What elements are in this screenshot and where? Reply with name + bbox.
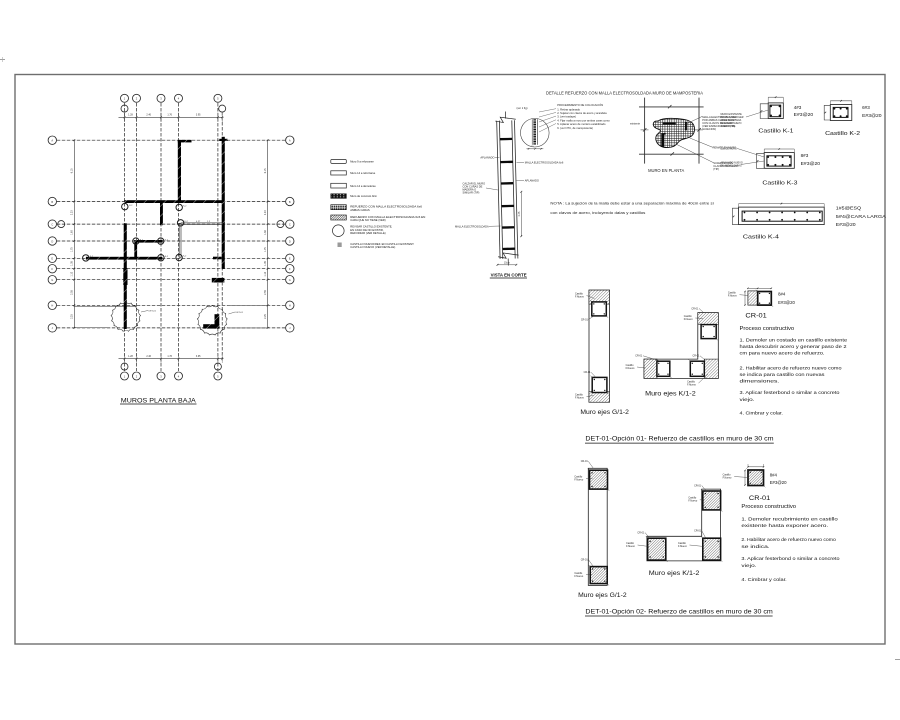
wall axis 3 rows B-C <box>160 202 163 226</box>
svg-text:REFORZAR (VER DETALLE): REFORZAR (VER DETALLE) <box>350 231 385 235</box>
castillo margin note 1 <box>721 110 769 128</box>
svg-text:se indica para castillo con nu: se indica para castillo con nuevas <box>740 372 826 378</box>
svg-text:4#3: 4#3 <box>794 105 802 110</box>
legend swatch 4 muro black <box>331 194 378 199</box>
svg-text:con clavos de acero, incluyend: con clavos de acero, incluyendo dalas y … <box>550 210 645 215</box>
svg-text:F.Nuevo: F.Nuevo <box>678 545 687 548</box>
svg-text:APLANADO: APLANADO <box>480 155 494 159</box>
plan vertical axis 2 <box>136 103 138 371</box>
plan horizontal axis C <box>57 223 285 225</box>
svg-text:C: C <box>51 222 53 226</box>
axis bubble bottom 5p <box>214 363 221 370</box>
svg-text:1.75: 1.75 <box>71 247 74 252</box>
axis bubble bottom 3 <box>157 372 165 380</box>
svg-text:F.Nuevo: F.Nuevo <box>626 367 635 370</box>
svg-text:E: E <box>51 257 53 261</box>
svg-text:E: E <box>289 257 291 261</box>
svg-text:Muro ejes G/1-2: Muro ejes G/1-2 <box>578 593 627 599</box>
muro en planta grid lines <box>639 98 704 164</box>
axis bubble left Cp <box>58 221 65 228</box>
castillo tag 6 <box>90 256 94 258</box>
svg-text:2.46: 2.46 <box>146 114 151 117</box>
det2 CR-01 caption <box>749 496 771 502</box>
svg-text:B: B <box>51 200 53 204</box>
svg-text:SUJECION): SUJECION) <box>702 127 716 131</box>
svg-text:F.Nuevo: F.Nuevo <box>574 575 583 578</box>
plan horizontal axis D <box>57 240 285 242</box>
svg-text:1. Demoler recubrimiento en ca: 1. Demoler recubrimiento en castillo <box>741 517 838 523</box>
detail sheet title <box>546 91 703 96</box>
svg-text:4. Cimbrar y colar.: 4. Cimbrar y colar. <box>740 411 783 417</box>
solid axis segment J right <box>228 327 268 329</box>
castillo tag 7 <box>165 256 169 258</box>
svg-text:CR-01: CR-01 <box>749 496 771 502</box>
castillo marker 1 <box>122 203 128 209</box>
svg-text:Muro 9 a reforzarse: Muro 9 a reforzarse <box>350 160 374 164</box>
svg-text:2. Habilitar acero de refuerzo: 2. Habilitar acero de refuerzo nuevo com… <box>741 537 836 543</box>
det1 muro ejes K/1-2 <box>644 313 718 379</box>
svg-text:EJE DE MURO: EJE DE MURO <box>721 147 737 150</box>
legend swatch 3 muro outline <box>331 183 376 188</box>
svg-text:CR-01: CR-01 <box>584 371 592 374</box>
svg-text:H: H <box>289 304 291 308</box>
svg-text:F.Nuevo: F.Nuevo <box>687 383 696 386</box>
svg-text:DET-01: DET-01 <box>236 312 244 314</box>
det2 muro K labels <box>626 484 706 547</box>
axis bubble left C <box>48 220 56 228</box>
svg-text:CR-01: CR-01 <box>693 355 701 358</box>
muro en planta mesh blob <box>653 118 694 147</box>
ladder label aplanado left <box>480 155 499 159</box>
castillo K-1 labels <box>794 105 814 117</box>
svg-text:F.Nuevo: F.Nuevo <box>575 295 584 298</box>
svg-text:E#3@20: E#3@20 <box>801 161 821 166</box>
svg-text:F.Nuevo: F.Nuevo <box>626 545 635 548</box>
legend swatch 5 mesh both faces <box>331 205 423 212</box>
det1 CR-01 detail <box>728 288 773 307</box>
axis bubble top 3 <box>157 94 165 102</box>
muro en planta label right 1 <box>702 115 741 131</box>
svg-text:G: G <box>289 278 291 282</box>
svg-text:2. Habilitar acero de refuerzo: 2. Habilitar acero de refuerzo nuevo com… <box>740 365 842 371</box>
det1 muro K labels <box>626 307 708 386</box>
castillo margin note 2 <box>721 147 765 157</box>
svg-text:1.28: 1.28 <box>128 114 133 117</box>
plan horizontal axis B <box>57 201 285 203</box>
svg-text:Muro ejes G/1-2: Muro ejes G/1-2 <box>580 410 629 416</box>
svg-text:NOTA : La sujeción de la malla: NOTA : La sujeción de la malla debe esta… <box>550 200 714 205</box>
castillo marker 8 <box>176 254 182 260</box>
svg-text:B: B <box>289 200 291 204</box>
svg-text:CARA QUE NO TIENE (VER): CARA QUE NO TIENE (VER) <box>350 218 385 222</box>
axis bubble bottom 2 <box>133 372 141 380</box>
wall row D axes 2-3 <box>134 240 162 243</box>
wall L in cloud 2 <box>203 314 219 328</box>
svg-text:E#3@20: E#3@20 <box>794 112 814 117</box>
svg-text:1. Retirar aplanado: 1. Retirar aplanado <box>557 107 580 111</box>
svg-text:2.25: 2.25 <box>71 314 74 319</box>
left dimension line <box>71 139 76 328</box>
svg-text:MALLA ELECTROSOLDADA 6x6: MALLA ELECTROSOLDADA 6x6 <box>525 161 564 165</box>
plan vertical axis 5 <box>217 103 219 371</box>
svg-text:2.20: 2.20 <box>264 210 267 215</box>
sheet corner tick bottom-right <box>895 659 900 661</box>
det1 proceso steps <box>740 337 848 416</box>
svg-text:1.60: 1.60 <box>264 230 267 235</box>
svg-text:8#3: 8#3 <box>801 153 809 158</box>
ladder label malla left <box>455 224 501 228</box>
sheet border frame <box>15 75 885 645</box>
det1 proceso title <box>740 326 795 332</box>
axis bubble right B <box>286 197 294 205</box>
wall axis 2 rows D-E <box>134 241 137 259</box>
svg-text:MALLA ELECTROSOLDADA: MALLA ELECTROSOLDADA <box>455 224 489 228</box>
plan horizontal axis E <box>57 257 285 259</box>
svg-text:2. Sujetar con clavos de acero: 2. Sujetar con clavos de acero y arandel… <box>557 111 607 115</box>
castillo K-2 labels <box>862 105 882 118</box>
svg-text:APLANADO: APLANADO <box>525 178 539 182</box>
plan horizontal axis A <box>57 139 285 141</box>
axis bubble right H <box>286 301 294 309</box>
svg-text:Proceso constructivo: Proceso constructivo <box>740 326 795 332</box>
muro en planta label left <box>630 122 641 125</box>
det1 muro G labels <box>575 292 596 399</box>
plan horizontal axis J <box>57 327 285 329</box>
axis bubble left D <box>48 237 56 245</box>
ladder label calzar block <box>463 181 499 194</box>
plan vertical axis 5p <box>221 112 223 362</box>
svg-text:2.55: 2.55 <box>71 290 74 295</box>
revision cloud 1 <box>111 302 157 331</box>
solid axis segment H right <box>228 304 268 306</box>
svg-text:3. (ver traslape): 3. (ver traslape) <box>557 115 576 119</box>
svg-text:hasta descubrir acero y genera: hasta descubrir acero y generar paso de … <box>740 344 847 350</box>
det2 title <box>585 609 773 616</box>
svg-text:ACERO (TIP).: ACERO (TIP). <box>721 125 736 128</box>
existing wall row C axes 4-5 <box>181 221 222 224</box>
svg-text:1#5@ESQ: 1#5@ESQ <box>836 205 862 210</box>
svg-text:4. Fijar malla a muro por amba: 4. Fijar malla a muro por ambas caras co… <box>557 118 610 122</box>
svg-text:(ver 1 fig): (ver 1 fig) <box>517 106 528 110</box>
svg-text:SIMILAR (TIP): SIMILAR (TIP) <box>463 190 480 194</box>
ladder right dimension <box>518 191 522 237</box>
muro en planta caption <box>648 168 684 173</box>
svg-text:existente: existente <box>630 122 641 125</box>
det1 CR-01 labels <box>778 291 795 304</box>
wall axis 5p rows A-F <box>219 137 227 269</box>
svg-text:CR-01: CR-01 <box>637 531 645 534</box>
svg-text:1.60: 1.60 <box>71 230 74 235</box>
svg-text:1.10: 1.10 <box>264 271 267 276</box>
nota text <box>550 200 714 214</box>
svg-text:C: C <box>289 222 291 226</box>
svg-text:D: D <box>51 239 53 243</box>
plan title MUROS PLANTA BAJA <box>120 397 197 404</box>
axis bubble top 5p <box>219 105 226 112</box>
det1 muro G caption <box>580 410 629 416</box>
svg-text:8#4: 8#4 <box>778 291 786 296</box>
svg-text:2.45: 2.45 <box>518 211 521 216</box>
svg-text:DET-01: DET-01 <box>149 311 157 313</box>
axis bubble left F <box>48 265 56 273</box>
svg-text:Muro ejes K/1-2: Muro ejes K/1-2 <box>645 392 696 398</box>
svg-text:6.15: 6.15 <box>264 168 267 173</box>
svg-text:A: A <box>51 139 53 143</box>
castillo marker 5 <box>158 238 164 244</box>
svg-text:EN CASO DE NO EXISTIR,: EN CASO DE NO EXISTIR, <box>350 228 384 232</box>
axis bubble top 1p <box>121 105 128 112</box>
castillo tag 1 <box>129 205 133 207</box>
wall axis 1 rows C-J <box>123 223 127 329</box>
legend symbol 7 circle <box>333 224 393 236</box>
svg-text:F.Nuevo: F.Nuevo <box>574 478 583 481</box>
existing wall axis 4 rows C-E <box>179 223 181 257</box>
castillo K-3 caption <box>762 181 797 187</box>
plan vertical axis 4 <box>178 103 180 371</box>
mesh detail bottom dim <box>527 146 544 150</box>
svg-text:Castillo K-3: Castillo K-3 <box>762 181 797 187</box>
axis bubble right C <box>286 220 294 228</box>
svg-text:Castillo K-2: Castillo K-2 <box>825 131 860 137</box>
det1 title <box>585 436 774 443</box>
det2 muro G caption <box>578 593 627 599</box>
axis bubble bottom 1 <box>121 372 129 380</box>
castillo marker 2 <box>176 204 182 210</box>
axis bubble right J <box>286 324 294 332</box>
svg-text:Muro de concreto 9cm: Muro de concreto 9cm <box>350 194 377 198</box>
wall row B axes 1-5 <box>124 200 223 203</box>
svg-text:Muro ejes K/1-2: Muro ejes K/1-2 <box>649 571 700 577</box>
svg-text:CASTILLO NUEVO (VER DETALLE): CASTILLO NUEVO (VER DETALLE) <box>350 245 395 249</box>
wall row E <box>86 257 162 260</box>
svg-text:CR-01: CR-01 <box>581 318 589 321</box>
bottom dimension line <box>119 354 224 363</box>
svg-text:5#4@CARA LARGA: 5#4@CARA LARGA <box>836 214 887 219</box>
svg-text:DETALLE REFUERZO CON MALLA ELE: DETALLE REFUERZO CON MALLA ELECTROSOLDAD… <box>546 91 703 96</box>
axis bubble left H <box>48 301 56 309</box>
axis bubble bottom 5 <box>214 372 222 380</box>
castillo marker 7 <box>158 255 164 261</box>
svg-text:Castillo K-1: Castillo K-1 <box>758 129 793 135</box>
svg-text:6. (ver NTC, de mampostería): 6. (ver NTC, de mampostería) <box>557 126 593 130</box>
svg-text:CR-01: CR-01 <box>694 530 702 533</box>
svg-text:cm para nuevo acero de refuerz: cm para nuevo acero de refuerzo. <box>740 351 825 357</box>
ladder label aplanado right <box>517 178 539 182</box>
castillo tag 2 <box>183 206 187 208</box>
mesh detail circle <box>521 118 550 147</box>
section title VISTA EN CORTE <box>490 273 527 278</box>
axis bubble left A <box>48 136 56 144</box>
muro en planta label right 2 <box>713 146 737 150</box>
mesh detail bar <box>532 119 537 145</box>
svg-text:2.20: 2.20 <box>71 210 74 215</box>
svg-text:AMBAS CARAS: AMBAS CARAS <box>350 208 370 212</box>
plan vertical axis 1 <box>124 103 126 371</box>
revision cloud 2 <box>197 305 243 335</box>
det2 muro K caption <box>649 571 700 577</box>
svg-text:EN AMBAS CARAS: EN AMBAS CARAS <box>721 164 743 167</box>
castillo K-3 labels <box>801 153 821 166</box>
svg-text:D: D <box>289 239 291 243</box>
svg-text:Muro 14 a reforzarse: Muro 14 a reforzarse <box>350 171 375 175</box>
solid axis segment H left <box>74 305 136 307</box>
ladder bottom dimension 15cm <box>497 261 518 265</box>
castillo tag 5 <box>165 239 169 241</box>
svg-text:CR-01: CR-01 <box>694 484 702 487</box>
castillo K-4 labels <box>836 205 887 227</box>
det2 CR-01 detail <box>723 464 766 487</box>
svg-text:6#3: 6#3 <box>862 105 870 110</box>
svg-text:15cm: 15cm <box>504 261 510 264</box>
castillo K-2 caption <box>825 131 860 137</box>
axis bubble left J <box>48 324 56 332</box>
svg-text:MURO EN PLANTA: MURO EN PLANTA <box>648 168 684 173</box>
svg-text:CR-01: CR-01 <box>635 355 643 358</box>
wall section elevation ladder <box>495 111 520 265</box>
svg-text:F.Nuevo: F.Nuevo <box>723 476 732 479</box>
plan horizontal axis G <box>57 279 285 281</box>
axis bubble right G <box>286 276 294 284</box>
svg-text:2.55: 2.55 <box>264 290 267 295</box>
axis bubble top 5 <box>214 94 222 102</box>
svg-text:Muro 14 a demolerse: Muro 14 a demolerse <box>350 184 376 188</box>
svg-text:CR-01: CR-01 <box>691 307 699 310</box>
plan horizontal axis F <box>57 268 285 270</box>
svg-text:F.Nuevo: F.Nuevo <box>575 396 584 399</box>
svg-text:3.95: 3.95 <box>196 355 201 358</box>
svg-text:E#3@20: E#3@20 <box>836 222 856 227</box>
castillo K-4 caption <box>743 235 779 241</box>
svg-text:CR-01: CR-01 <box>581 558 589 561</box>
wall stub axis 5p row E <box>213 257 222 260</box>
svg-text:2.25: 2.25 <box>264 314 267 319</box>
svg-text:REVISAR CASTILLO EXISTENTE,: REVISAR CASTILLO EXISTENTE, <box>350 224 392 228</box>
svg-text:E#3@20: E#3@20 <box>862 113 882 118</box>
svg-text:4. Cimbrar y colar.: 4. Cimbrar y colar. <box>741 577 786 583</box>
castillo margin note 3 <box>721 161 765 167</box>
det2 CR-01 labels <box>770 472 787 484</box>
mesh procedure list <box>539 102 610 132</box>
castillo marker 6 <box>83 255 89 261</box>
axis bubble top 1 <box>121 94 129 102</box>
axis bubble right E <box>286 254 294 262</box>
svg-text:se indica.: se indica. <box>741 544 769 550</box>
svg-text:VISTA EN CORTE: VISTA EN CORTE <box>491 273 527 278</box>
legend symbol 8 gray square <box>338 242 415 249</box>
castillo tag 8 <box>183 256 187 258</box>
axis bubble right Cp <box>277 221 284 228</box>
svg-text:2.46: 2.46 <box>146 355 151 358</box>
svg-text:(TIP): (TIP) <box>713 167 719 171</box>
svg-text:1.75: 1.75 <box>264 247 267 252</box>
axis bubble bottom 4 <box>175 372 183 380</box>
castillo K-1 <box>760 96 783 118</box>
svg-text:8#4: 8#4 <box>770 472 778 477</box>
axis bubble right F <box>286 265 294 273</box>
legend swatch 6 mesh one face <box>331 215 426 222</box>
svg-text:1.05: 1.05 <box>71 261 74 266</box>
castillo tag 4 <box>140 239 144 241</box>
svg-text:CR-01: CR-01 <box>745 313 767 319</box>
det2 muro ejes G/1-2 <box>588 468 610 585</box>
svg-text:F.Nuevo: F.Nuevo <box>688 500 697 503</box>
axis bubble left E <box>48 254 56 262</box>
svg-text:existente hasta exponer acero.: existente hasta exponer acero. <box>741 523 828 529</box>
svg-text:A: A <box>289 139 291 143</box>
right dimension line <box>264 139 269 328</box>
axis bubble top 2 <box>133 94 141 102</box>
svg-text:1.28: 1.28 <box>128 355 133 358</box>
svg-text:1.05: 1.05 <box>264 261 267 266</box>
castillo marker 4 <box>133 238 139 244</box>
svg-text:dimensiones.: dimensiones. <box>740 379 780 385</box>
det1 muro ejes G/1-2 <box>589 290 610 402</box>
mesh detail note ver fig <box>517 106 528 110</box>
svg-text:1.76: 1.76 <box>167 355 172 358</box>
castillo marker 3 <box>177 220 183 226</box>
muro en planta label right 3 <box>713 161 737 171</box>
castillo K-2 <box>824 100 852 121</box>
legend swatch 1 muro outline <box>331 160 374 164</box>
svg-text:F.Nuevo: F.Nuevo <box>728 295 737 298</box>
muro en planta wall bars <box>661 122 687 147</box>
plan vertical axis 3 <box>160 103 162 371</box>
svg-text:DET-01-Opción 02- Refuerzo de: DET-01-Opción 02- Refuerzo de castillos … <box>585 609 773 616</box>
castillo K-4 <box>732 203 824 225</box>
svg-text:3. Aplicar festerbond o simila: 3. Aplicar festerbond o similar a concre… <box>740 390 840 396</box>
svg-text:Proceso constructivo: Proceso constructivo <box>741 504 796 510</box>
det2 proceso title <box>741 504 796 510</box>
wall axis 4 rows A-B <box>178 140 192 202</box>
axis bubble top 4 <box>175 94 183 102</box>
top dimension line <box>119 113 224 123</box>
svg-text:MUROS PLANTA BAJA: MUROS PLANTA BAJA <box>121 397 197 404</box>
axis bubble right D <box>286 237 294 245</box>
axis bubble bottom 1p <box>121 363 128 370</box>
svg-text:5. Aplanar acero de mortero es: 5. Aplanar acero de mortero estabilizado <box>557 122 606 126</box>
castillo tag 3 <box>185 221 189 223</box>
svg-text:1.76: 1.76 <box>167 114 172 117</box>
castillo K-1 caption <box>758 129 793 135</box>
svg-text:Castillo K-4: Castillo K-4 <box>743 235 779 241</box>
det2 proceso steps <box>741 517 839 583</box>
axis bubble right A <box>286 136 294 144</box>
svg-text:E#3@20: E#3@20 <box>770 480 787 485</box>
det2 muro G labels <box>574 460 593 578</box>
legend swatch 2 muro outline <box>331 171 376 175</box>
svg-text:1.10: 1.10 <box>71 271 74 276</box>
castillo K-3 <box>756 148 794 168</box>
svg-text:viejo.: viejo. <box>741 563 756 569</box>
sheet corner tick top-left <box>0 57 5 62</box>
svg-text:3. Aplicar festerbond o simila: 3. Aplicar festerbond o similar a concre… <box>741 556 839 562</box>
det2 muro ejes K/1-2 <box>646 489 723 562</box>
det1 muro K caption <box>645 392 696 398</box>
muro en planta leaders <box>676 117 714 163</box>
det1 CR-01 caption <box>745 313 767 319</box>
svg-text:H: H <box>51 304 53 308</box>
axis bubble left B <box>48 197 56 205</box>
wall block axis 5p row F <box>212 278 225 283</box>
svg-text:G: G <box>51 278 53 282</box>
svg-text:3.95: 3.95 <box>196 114 201 117</box>
svg-text:1. Demoler un costado en casti: 1. Demoler un costado en castillo existe… <box>740 337 848 343</box>
svg-text:F.Nuevo: F.Nuevo <box>684 318 693 321</box>
svg-text:viejo.: viejo. <box>740 397 755 403</box>
axis bubble left G <box>48 276 56 284</box>
svg-text:6.15: 6.15 <box>71 168 74 173</box>
plan horizontal axis H <box>57 304 285 306</box>
